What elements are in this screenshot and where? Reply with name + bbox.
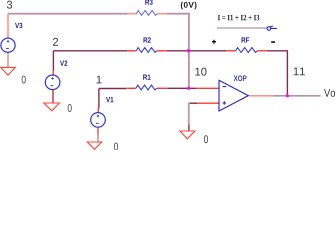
- op-amp XOP triangle: [219, 80, 248, 111]
- ref label V2: [60, 60, 67, 65]
- node label 10: [195, 68, 206, 76]
- ref label XOP: [234, 75, 247, 81]
- source V2 minus glyph: [51, 85, 54, 87]
- lead V3 top: [7, 14, 9, 39]
- wire node 2 vertical to V2: [52, 51, 54, 71]
- current arrow line: [217, 27, 264, 29]
- lead R1 left: [126, 87, 136, 89]
- lead R2 left: [127, 50, 136, 52]
- source V2 plus glyph: [51, 77, 53, 79]
- junction node 11 at output: [286, 94, 289, 97]
- wire node 2 horizontal: [53, 50, 127, 52]
- lead R2 right: [157, 50, 167, 52]
- lead RF left: [226, 50, 235, 52]
- ground label 0 for V3: [22, 76, 26, 84]
- current arrow line blue fade: [264, 27, 268, 29]
- ref label V3: [15, 23, 22, 28]
- wire RF right to corner down to output node 11: [267, 51, 288, 96]
- lead V1 bottom lower part: [97, 134, 99, 142]
- lead R3 left: [127, 13, 136, 15]
- lead V1 bottom upper part: [97, 127, 99, 134]
- wire R2 to RF node 10: [167, 50, 226, 52]
- node label 1: [97, 76, 102, 84]
- node label 11: [294, 67, 305, 75]
- wire vertical from node 3 corner down to node 10 junctions: [188, 13, 190, 89]
- lead op-amp plus input: [197, 102, 220, 104]
- current formula I = I1 + I2 + I3: [218, 15, 260, 20]
- source V1 minus glyph: [96, 122, 99, 124]
- wire stub above op-amp ground: [188, 125, 190, 131]
- op-amp minus input glyph: [223, 86, 227, 88]
- resistor R3: [136, 11, 157, 16]
- junction node 10 at R2/RF: [187, 49, 190, 52]
- ref label RF: [242, 37, 250, 42]
- lead R1 right: [157, 87, 168, 89]
- ref label R3: [145, 0, 152, 5]
- ground V1: [87, 142, 101, 149]
- lead R3 right: [157, 13, 166, 15]
- ref label R1: [143, 74, 150, 79]
- current arrow head: [267, 27, 271, 31]
- wire node 1 vertical to V1: [98, 89, 100, 109]
- node label 2: [53, 38, 58, 46]
- ground label 0 for V1: [114, 143, 118, 151]
- output label Vo: [324, 89, 335, 97]
- ref label R2: [144, 37, 151, 42]
- source V3 plus glyph: [7, 40, 9, 42]
- resistor R1: [136, 85, 157, 90]
- wire plus input down to ground (light): [188, 103, 190, 125]
- wire R1 to op-amp minus input node 10: [167, 87, 196, 89]
- source V3 circle: [1, 38, 15, 52]
- wire node 3 horizontal right of R3: [167, 13, 190, 15]
- wire op-amp plus input horizontal: [189, 102, 197, 104]
- plus sign left of RF: [212, 40, 216, 44]
- ground op-amp plus input: [180, 131, 195, 139]
- source V3 minus glyph: [6, 48, 9, 50]
- lead RF right: [257, 50, 266, 52]
- lead V1 top: [97, 108, 99, 113]
- wire node 3 horizontal left of R3: [8, 13, 128, 15]
- resistor RF: [236, 48, 258, 53]
- lead V2 bottom to ground: [52, 90, 54, 103]
- wire output right of junction to Vo: [273, 95, 320, 97]
- source V1 circle: [91, 113, 106, 128]
- ground V3: [1, 67, 15, 75]
- junction node 10 at R1/minus input: [187, 87, 190, 90]
- lead V3 bottom to ground: [7, 52, 9, 67]
- bias annotation (0V): [181, 2, 197, 10]
- ref label V1: [106, 97, 113, 102]
- ground label 0 for op-amp: [204, 135, 208, 143]
- source V2 circle: [45, 75, 60, 90]
- ground label 0 for V2: [68, 104, 72, 112]
- resistor R2: [136, 48, 156, 53]
- ground V2: [44, 103, 60, 111]
- lead op-amp output: [249, 95, 273, 97]
- node label 3: [7, 1, 12, 9]
- lead V2 top: [52, 71, 54, 75]
- lead op-amp minus input: [196, 87, 220, 89]
- op-amp plus input glyph: [223, 101, 227, 105]
- wire node 1 horizontal: [99, 88, 126, 90]
- source V1 plus glyph: [97, 115, 99, 117]
- minus sign right of RF: [271, 41, 275, 43]
